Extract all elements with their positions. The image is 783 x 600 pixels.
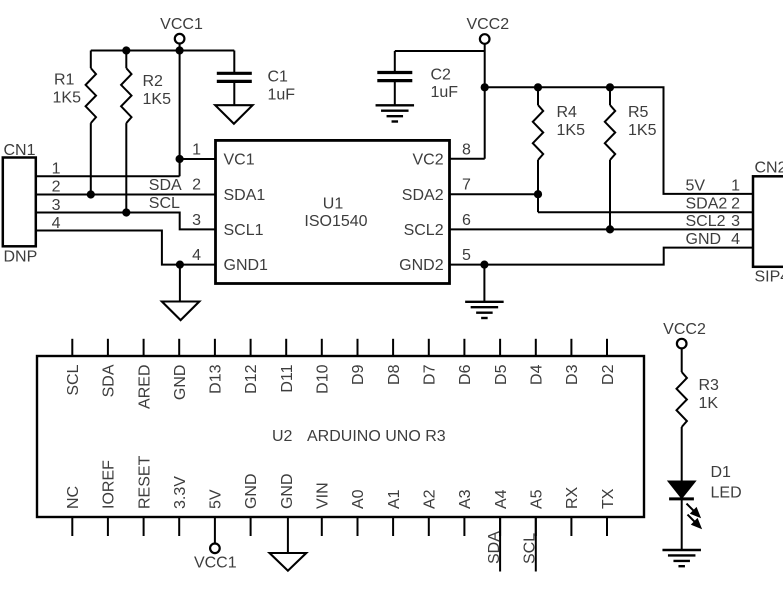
junction dot R1/SDA [87,190,95,198]
svg-text:3: 3 [52,197,61,214]
svg-text:IOREF: IOREF [101,460,118,509]
svg-text:D11: D11 [279,364,296,392]
svg-text:D5: D5 [493,364,510,385]
U2 bottom pin stubs [72,517,607,536]
svg-text:D2: D2 [600,364,617,385]
svg-text:DNP: DNP [4,249,38,266]
svg-text:R2: R2 [143,73,164,90]
svg-text:GND2: GND2 [399,257,444,274]
junction dot GND2 node [480,261,488,269]
svg-text:SDA: SDA [149,177,182,194]
svg-text:A0: A0 [350,489,367,509]
svg-text:VC1: VC1 [224,152,255,169]
ground (earth) under D1 [662,550,701,566]
svg-text:D12: D12 [243,364,260,393]
svg-text:D7: D7 [422,364,439,385]
svg-text:3: 3 [192,212,201,229]
CN1 pin 1 wire [36,175,180,177]
CN1 pin 2 wire (SDA) [36,194,216,196]
junction dot rail/R2 [122,46,130,54]
label R5 1K5 [628,104,657,139]
power flag VCC1 (bottom) [194,544,237,572]
ground (triangle) GND1 [162,302,199,321]
svg-text:3.3V: 3.3V [172,476,189,509]
svg-text:1K5: 1K5 [53,90,82,107]
svg-text:NC: NC [65,486,82,509]
svg-text:R4: R4 [557,104,578,121]
svg-text:GND: GND [243,473,260,509]
connector CN1 box [3,158,36,247]
capacitor C1 [217,51,252,106]
ground (triangle) under U2 [270,553,307,571]
svg-text:R3: R3 [699,377,720,394]
U2 top pin stubs [72,339,607,356]
svg-text:1K5: 1K5 [557,122,586,139]
junction dot R4 top [534,83,542,91]
U2 top pin names (rotated) [65,364,617,409]
wire GND2 to CN2 [450,248,754,265]
connector CN2 box [753,176,783,266]
power flag VCC2 (top) [466,16,509,44]
junction dot R5/SCL2 [606,225,614,233]
svg-text:D6: D6 [457,364,474,385]
svg-text:D8: D8 [386,364,403,385]
svg-text:SCL1: SCL1 [224,222,264,239]
junction dot R4/SDA2 [534,190,542,198]
label C2 1uF [431,67,459,102]
label D1 LED [711,464,742,502]
svg-text:ARDUINO UNO R3: ARDUINO UNO R3 [307,428,446,445]
svg-text:R5: R5 [628,104,649,121]
svg-text:A1: A1 [386,489,403,509]
ground (earth) GND2 [465,302,504,318]
svg-text:4: 4 [52,215,61,232]
svg-text:VIN: VIN [315,482,332,509]
svg-text:VCC1: VCC1 [160,16,203,33]
svg-text:8: 8 [462,142,471,159]
svg-text:VCC1: VCC1 [194,555,237,572]
svg-text:1: 1 [731,177,740,194]
svg-text:A3: A3 [457,489,474,509]
svg-text:SCL2: SCL2 [404,222,444,239]
junction dot R2/SCL [122,208,130,216]
svg-text:SDA: SDA [101,364,118,397]
svg-text:SDA: SDA [486,531,503,564]
svg-text:SDA1: SDA1 [224,187,266,204]
junction dot R5 top [606,83,614,91]
svg-text:C1: C1 [268,69,289,86]
svg-text:D1: D1 [711,464,732,481]
svg-text:GND: GND [686,231,722,248]
svg-text:VCC2: VCC2 [466,16,509,33]
svg-text:1K: 1K [699,395,719,412]
svg-text:2: 2 [731,195,740,212]
svg-text:SCL: SCL [65,364,82,395]
U1 pin 1 stub [180,158,216,160]
resistor R1 [86,51,96,195]
svg-text:A5: A5 [529,489,546,509]
svg-text:4: 4 [192,247,201,264]
svg-text:GND1: GND1 [224,257,269,274]
power flag VCC1 (top) [160,16,203,44]
svg-text:CN2: CN2 [755,160,783,177]
svg-text:1uF: 1uF [431,84,459,101]
label C1 1uF [268,69,296,104]
svg-text:SDA2: SDA2 [686,195,728,212]
resistor R2 [121,51,131,213]
svg-text:A2: A2 [422,489,439,509]
svg-text:4: 4 [731,231,740,248]
wire GND2 drop [483,265,485,302]
wire A4 to SDA [499,517,501,572]
label R4 1K5 [557,104,586,139]
junction dot rail/VCC1 [176,46,184,54]
label U2 ARDUINO UNO R3 [272,428,446,445]
svg-text:SDA2: SDA2 [402,187,444,204]
svg-text:ARED: ARED [136,365,153,409]
svg-text:LED: LED [711,485,742,502]
resistor R5 [605,87,615,229]
wire VCC2 drop [484,44,486,159]
svg-text:VCC2: VCC2 [663,321,706,338]
svg-text:RESET: RESET [136,455,153,509]
svg-text:5V: 5V [686,177,706,194]
svg-text:1uF: 1uF [268,87,296,104]
svg-text:D10: D10 [315,364,332,393]
wire R4R5 rail + 5V feed [485,87,753,194]
svg-text:D9: D9 [350,364,367,385]
svg-text:2: 2 [52,179,61,196]
svg-text:1K5: 1K5 [628,122,657,139]
ground (earth) under C2 [376,105,415,121]
svg-text:1: 1 [192,142,201,159]
capacitor C2 [377,51,412,105]
label R3 1K [699,377,720,412]
wire SDA2 to CN2 [538,211,753,213]
svg-text:C2: C2 [431,67,452,84]
resistor R3 [677,348,687,481]
svg-text:GND: GND [279,473,296,509]
svg-text:D4: D4 [529,364,546,385]
junction dot VC1 pin1 node [176,155,184,163]
svg-text:A4: A4 [493,489,510,509]
CN1 pin 3 wire (SCL) [36,213,216,230]
svg-text:D3: D3 [564,364,581,385]
svg-text:GND: GND [172,365,189,401]
label R1 1K5 [53,72,82,107]
wire VC2 pin8 link [450,158,485,160]
svg-text:3: 3 [731,213,740,230]
wire A5 to SCL [535,517,537,572]
ground (triangle) under C1 [215,105,252,124]
svg-text:TX: TX [600,488,617,509]
svg-text:6: 6 [462,212,471,229]
svg-text:1: 1 [52,161,61,178]
svg-text:SIP4: SIP4 [755,269,783,286]
svg-text:RX: RX [564,486,581,509]
svg-text:7: 7 [462,177,471,194]
resistor R4 [533,87,543,212]
wire C2 rail [395,50,485,52]
diode D1 LED [668,481,695,550]
power flag VCC2 (bottom) [663,321,706,348]
IC U1 box [216,140,450,283]
svg-text:VC2: VC2 [412,152,443,169]
svg-text:5: 5 [462,247,471,264]
svg-text:R1: R1 [54,72,75,89]
wire 5V pin to VCC1 flag [214,517,216,543]
wire GND pin drop [287,517,289,553]
svg-text:U1: U1 [323,196,344,213]
wire GND1 drop [179,265,181,302]
wire SCL2 pin6 to CN2 [450,228,754,230]
CN1 pin 4 wire (GND) [36,231,216,265]
wire SDA2 stub pin7 [450,193,539,195]
svg-text:2: 2 [192,177,201,194]
svg-text:CN1: CN1 [4,142,36,159]
svg-text:5V: 5V [208,489,225,509]
U2 bottom pin names (rotated) [65,455,617,509]
svg-text:SCL: SCL [149,195,180,212]
svg-text:SCL2: SCL2 [686,213,726,230]
svg-text:1K5: 1K5 [143,91,172,108]
wire VCC1 rail [91,50,235,52]
wire VCC1 drop to pin1 [179,44,181,177]
svg-text:U2: U2 [272,428,293,445]
label R2 1K5 [143,73,172,108]
LED emission arrows [687,504,701,528]
svg-text:D13: D13 [208,364,225,393]
junction dot VCC2 branch [481,83,489,91]
junction dot GND1 node [176,261,184,269]
IC U2 box (Arduino) [37,356,644,517]
svg-text:SCL: SCL [522,533,539,564]
svg-text:ISO1540: ISO1540 [304,213,367,230]
